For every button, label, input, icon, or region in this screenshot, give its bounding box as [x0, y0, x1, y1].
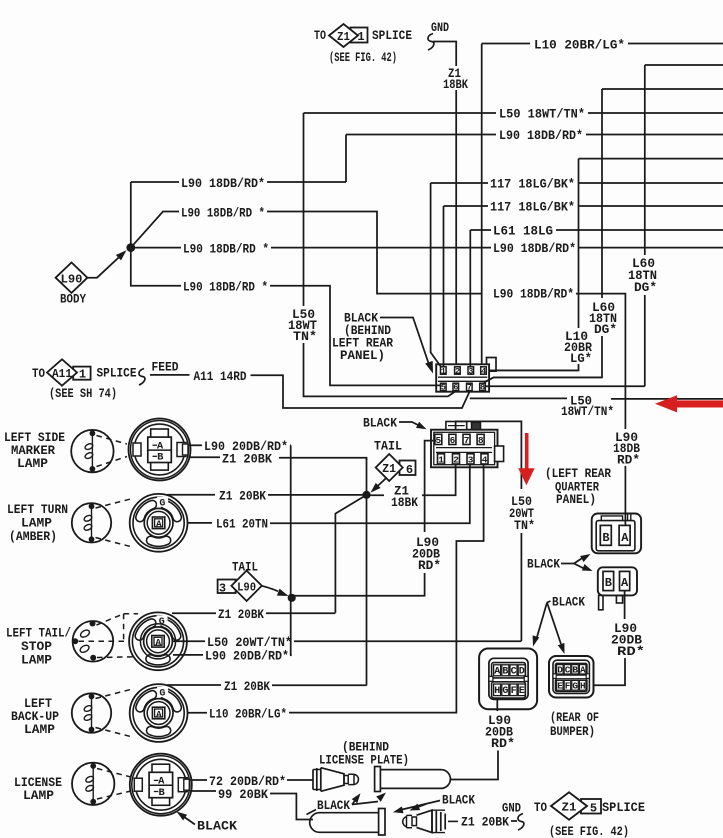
svg-text:LAMP: LAMP	[23, 789, 54, 803]
connector C1 pin 4	[481, 366, 487, 376]
connector C1 8-way shell	[436, 358, 496, 392]
connector C2 pin 1	[438, 454, 445, 466]
svg-text:L10 20BR/LG*: L10 20BR/LG*	[534, 38, 625, 53]
svg-text:7: 7	[464, 435, 470, 446]
svg-text:TO: TO	[32, 366, 45, 381]
wire Z1 20BK from lamp2 to junction J1	[167, 489, 367, 504]
svg-text:E: E	[519, 686, 525, 697]
wire 117 18LG/BK* first (right edge y183 to C1 pin 1)	[431, 177, 723, 367]
connector B/A lower	[598, 567, 637, 610]
svg-text:G: G	[572, 681, 578, 692]
node body junction J0 with dot	[126, 243, 135, 252]
svg-text:18BK: 18BK	[391, 496, 418, 510]
svg-text:SPLICE: SPLICE	[97, 366, 137, 381]
label BLACK with arrows to upper bullet pair	[307, 793, 387, 815]
wire L90 20DB RD* from B/A lower pin A to EFGH connector pin H	[594, 591, 646, 686]
wire L90 20DB RD* from HGFE to upper bullet connector	[451, 699, 516, 780]
svg-text:5: 5	[441, 383, 446, 393]
connector DCBA pin A	[579, 664, 586, 675]
svg-text:L90 18DB/RD*: L90 18DB/RD*	[499, 128, 583, 143]
node junction J1 (Z1 ground bus) with dot	[335, 458, 370, 686]
wire L90 18DB/RD* through line y248 from body junction to right edge	[131, 241, 723, 257]
svg-text:(SEE FIG. 42): (SEE FIG. 42)	[329, 51, 397, 65]
svg-text:LAMP: LAMP	[21, 517, 52, 531]
connector C2 pin 6	[449, 434, 456, 446]
splice symbol Z1-5 (TO Z1 5 SPLICE)	[534, 792, 645, 838]
label BLACK with leader arrow to connector C2	[363, 416, 427, 431]
wire A11 14RD feed to C1 pin 7	[150, 369, 470, 408]
connector C2 pin 4	[481, 454, 488, 466]
svg-text:Z1 20BK: Z1 20BK	[218, 607, 264, 622]
ground symbol GND (top)	[428, 21, 449, 50]
svg-text:3: 3	[219, 582, 226, 596]
svg-text:SPLICE: SPLICE	[602, 800, 645, 815]
svg-text:2: 2	[453, 454, 459, 465]
connector HGFE pin H	[494, 684, 501, 697]
connector lamp2 socket	[130, 494, 188, 552]
svg-text:Z1: Z1	[337, 30, 350, 44]
connector C1 pin 2	[455, 366, 461, 376]
svg-text:L10 20BR/LG*: L10 20BR/LG*	[209, 707, 287, 722]
lamp bulb license	[72, 763, 114, 805]
svg-text:Z1: Z1	[562, 801, 577, 815]
label BLACK (BEHIND LEFT REAR PANEL) with leader arrow to connector C1	[332, 311, 433, 374]
svg-text:DG*: DG*	[634, 280, 657, 295]
svg-text:FEED: FEED	[152, 361, 179, 375]
svg-text:4: 4	[481, 366, 486, 376]
label (REAR OF BUMPER)	[550, 710, 599, 739]
ground/feed squiggle and FEED label	[139, 361, 179, 386]
svg-text:L90 18DB/RD *: L90 18DB/RD *	[183, 242, 269, 257]
connector DCBA pin B	[572, 664, 579, 675]
svg-text:117 18LG/BK*: 117 18LG/BK*	[490, 200, 575, 215]
label LEFT SIDE MARKER LAMP	[4, 431, 65, 471]
wire from BODY diamond to junction J0 with arrowhead	[87, 250, 126, 278]
svg-text:L61 20TN: L61 20TN	[216, 517, 268, 532]
svg-text:SPLICE: SPLICE	[372, 28, 412, 43]
svg-text:LICENSE PLATE): LICENSE PLATE)	[319, 753, 409, 768]
wire L90 20DB/RD* from lamp3 to junction J2	[173, 649, 292, 664]
svg-text:B: B	[502, 667, 508, 678]
red arrow pointing down at wire L50 20WT TN*	[518, 433, 534, 485]
connector EFGH pin H	[579, 680, 586, 691]
svg-text:8: 8	[478, 435, 484, 446]
svg-text:1: 1	[357, 30, 364, 44]
red arrow pointing left at wire L50 18WT/TN*	[655, 395, 723, 412]
svg-text:H: H	[580, 681, 586, 692]
svg-text:A: A	[155, 637, 161, 648]
svg-text:L50 18WT/TN*: L50 18WT/TN*	[499, 107, 585, 122]
connector ABCD pin A	[494, 665, 501, 678]
connector DCBA pin D	[557, 664, 564, 675]
svg-text:(SEE SH 74): (SEE SH 74)	[49, 387, 117, 401]
wire 72 20DB/RD* from lamp5 pin A to license bullet connector	[190, 774, 313, 789]
svg-text:BLACK: BLACK	[317, 798, 350, 813]
svg-text:BUMPER): BUMPER)	[550, 724, 595, 739]
svg-text:LAMP: LAMP	[17, 457, 48, 471]
svg-text:L90: L90	[61, 273, 83, 287]
connector C1 pin 8	[480, 383, 486, 393]
wire Z1 18BK from GND down to connector C1 pin 2	[433, 42, 468, 365]
connector EFGH pin F	[564, 680, 571, 691]
svg-text:Z1 20BK: Z1 20BK	[222, 452, 272, 467]
wire L10 20BR/LG* (top, to connector C1 pin 4)	[482, 38, 723, 365]
svg-text:99 20BK: 99 20BK	[218, 787, 268, 802]
svg-text:3: 3	[468, 366, 473, 376]
connector lamp3 socket	[129, 612, 187, 670]
wire L60 18TN DG* (right edge y65 down to C1 pin 8)	[483, 65, 723, 386]
svg-text:LAMP: LAMP	[21, 654, 52, 668]
wire L60 second from C1 pin 8 diagonal	[484, 377, 602, 382]
label BLACK with leader to lamp5 socket	[177, 812, 238, 834]
svg-text:18BK: 18BK	[443, 78, 468, 92]
connector ABCD/HGFE (8-way square)	[479, 649, 537, 710]
svg-text:BLACK: BLACK	[442, 793, 475, 808]
svg-text:PANEL): PANEL)	[340, 348, 385, 363]
svg-text:TO: TO	[534, 800, 547, 815]
svg-text:LEFT TAIL/: LEFT TAIL/	[6, 627, 71, 641]
svg-text:B: B	[602, 531, 609, 545]
label LICENSE LAMP	[14, 776, 62, 803]
svg-text:1: 1	[79, 368, 86, 382]
wire L61 20TN from lamp2 to C2 pin 3	[188, 517, 269, 532]
svg-text:LEFT: LEFT	[24, 697, 52, 711]
svg-text:A: A	[156, 519, 162, 530]
wire L90 branch 2 y212 routed to B/A connector via x377 and x625	[131, 206, 626, 430]
svg-text:7: 7	[467, 383, 472, 393]
svg-text:3: 3	[468, 454, 474, 465]
wire dashed leaders lamp4	[96, 689, 133, 737]
connector C1 pin 5	[441, 383, 447, 393]
connector bullet upper pair behind license plate	[313, 767, 450, 792]
svg-text:4: 4	[482, 454, 488, 465]
svg-text:G: G	[502, 686, 508, 697]
wire Z1 20BK from lamp4 to junction J1 bus	[167, 679, 367, 694]
svg-text:5: 5	[436, 435, 442, 446]
svg-text:BLACK: BLACK	[197, 819, 237, 834]
wire L90 branch 4 y285 routed to C1 pin 5	[131, 248, 440, 386]
svg-text:A11: A11	[52, 368, 72, 381]
svg-text:C: C	[565, 664, 571, 675]
connector C1 pin 7	[467, 383, 473, 393]
svg-text:GND: GND	[431, 21, 449, 35]
connector DCBA pin C	[564, 664, 571, 675]
lamp bulb left back-up	[72, 693, 111, 732]
ground symbol GND (bottom right)	[502, 802, 524, 831]
wire L50 20WT/TN* from lamp3 to C2 pin 6 riser	[172, 635, 521, 650]
splice diamond Z1 with box 1	[329, 24, 412, 65]
connector B/A upper (left rear quarter panel)	[592, 514, 641, 554]
connector lamp1 socket A/B	[129, 419, 191, 481]
svg-text:L90 18DB/RD*: L90 18DB/RD*	[181, 176, 265, 191]
svg-text:BLACK: BLACK	[552, 595, 585, 610]
wire L90 20DB/RD* from lamp1 pin A to junction J2	[189, 439, 291, 454]
svg-text:RD*: RD*	[491, 736, 515, 751]
connector ABCD pin C	[510, 665, 517, 678]
connector lamp5 socket A/B	[130, 754, 192, 816]
svg-text:A: A	[157, 440, 164, 452]
wire Z1 18BK from C2 pin 2 to junction J1 (inline label)	[367, 464, 456, 510]
svg-text:TO: TO	[314, 28, 326, 43]
lamp bulb left tail/stop (dual filament)	[72, 621, 113, 662]
connector ABCD pin B	[502, 665, 509, 678]
svg-text:B: B	[605, 576, 612, 590]
splice symbol L90 BODY diamond	[56, 263, 88, 307]
svg-text:Z1 20BK: Z1 20BK	[461, 815, 509, 830]
svg-text:Z1 20BK: Z1 20BK	[224, 679, 270, 694]
svg-text:A: A	[621, 576, 629, 590]
label LEFT TAIL/ STOP LAMP	[6, 627, 71, 668]
svg-text:G: G	[159, 498, 165, 509]
svg-text:Z1 20BK: Z1 20BK	[219, 489, 266, 504]
wire L60 18TN DG* second (right edge y89 down to C1 pin 8 area)	[485, 89, 723, 382]
svg-text:Z1: Z1	[382, 463, 396, 476]
svg-text:BODY: BODY	[60, 293, 86, 307]
connector C1 pin 1	[441, 366, 447, 376]
svg-text:F: F	[511, 686, 517, 697]
svg-text:MARKER: MARKER	[11, 444, 55, 458]
wire L61 18LG (right edge y230 to C1 pin 3)	[470, 224, 723, 367]
splice symbol Z1-1 (TO Z1 1 SPLICE)	[314, 28, 326, 43]
connector bullet lower pair	[310, 809, 458, 836]
svg-text:8: 8	[480, 383, 485, 393]
svg-text:PANEL): PANEL)	[556, 492, 596, 507]
connector C1 pin 3	[468, 366, 474, 376]
svg-text:(AMBER): (AMBER)	[9, 530, 57, 544]
wire dashed leaders lamp5	[97, 769, 131, 800]
connector C2 8-way shell	[431, 422, 504, 468]
wire L50 18WT/TN* (right edge, down left side x303 to C1 pin 6)	[288, 107, 723, 397]
svg-text:LEFT SIDE: LEFT SIDE	[4, 431, 65, 445]
svg-text:TAIL: TAIL	[374, 439, 402, 454]
svg-text:D: D	[557, 664, 563, 675]
svg-text:5: 5	[590, 802, 597, 816]
svg-text:LICENSE: LICENSE	[14, 776, 62, 790]
svg-text:TN*: TN*	[514, 518, 535, 533]
svg-text:BLACK: BLACK	[527, 557, 560, 572]
wire Z1 20BK from lamp3 to junction J1 branch	[172, 607, 335, 622]
lamp bulb left side marker	[71, 430, 113, 472]
svg-text:6: 6	[453, 383, 458, 393]
svg-text:A: A	[494, 667, 500, 678]
svg-text:STOP: STOP	[21, 640, 52, 654]
connector HGFE pin F	[510, 684, 517, 697]
wire L90 branch 1 y182	[131, 176, 346, 248]
svg-text:LG*: LG*	[570, 351, 592, 366]
svg-text:18WT/TN*: 18WT/TN*	[561, 404, 614, 419]
connector EFGH pin G	[572, 680, 579, 691]
svg-text:1: 1	[441, 366, 446, 376]
label TAIL splice Z1-6 diamond with arrow to junction J1	[371, 439, 416, 493]
svg-text:(REAR OF: (REAR OF	[550, 710, 599, 725]
label BLACK with arrows to both B/A connectors	[527, 554, 593, 572]
connector HGFE pin E	[518, 684, 525, 697]
svg-text:LAMP: LAMP	[24, 723, 55, 737]
svg-text:L90 18DB/RD *: L90 18DB/RD *	[183, 280, 268, 295]
svg-text:E: E	[557, 681, 563, 692]
connector C1 pin 6	[453, 383, 459, 393]
connector EFGH pin E	[557, 680, 564, 691]
splice symbol A11-1 (TO A11 1 SPLICE)	[32, 359, 137, 401]
connector C2 pin 2	[453, 454, 460, 466]
label LEFT BACK-UP LAMP	[11, 697, 59, 737]
svg-text:A: A	[156, 709, 162, 720]
svg-text:B: B	[158, 787, 165, 799]
connector lamp4 socket	[130, 684, 188, 742]
svg-text:2: 2	[455, 366, 460, 376]
wire dashed leaders lamp1 bulb to socket	[97, 436, 128, 467]
svg-text:1: 1	[438, 454, 444, 465]
svg-text:6: 6	[406, 463, 413, 477]
label BLACK with arrows to ABCD and DCBA connectors	[533, 595, 586, 655]
svg-text:RD*: RD*	[617, 644, 645, 659]
svg-text:117 18LG/BK*: 117 18LG/BK*	[490, 177, 575, 192]
connector C2 pin 5	[435, 434, 442, 446]
connector C2 pin 8	[477, 434, 484, 446]
label LEFT TURN LAMP (AMBER)	[7, 503, 68, 544]
svg-text:TN*: TN*	[293, 329, 317, 344]
svg-text:GND: GND	[502, 802, 521, 816]
label (LEFT REAR QUARTER PANEL)	[545, 466, 611, 507]
svg-text:A: A	[158, 776, 165, 788]
connector HGFE pin G	[502, 684, 509, 697]
wire L50 18WT/TN* lower with red arrow (from C1 pin 7 area to right)	[470, 394, 723, 420]
svg-text:L90 18DB/RD *: L90 18DB/RD *	[181, 206, 265, 221]
wire dashed leaders lamp2	[96, 499, 133, 548]
svg-text:G: G	[159, 689, 165, 700]
connector C2 pin 3	[467, 454, 474, 466]
svg-text:D: D	[519, 667, 525, 678]
svg-text:H: H	[494, 686, 500, 697]
wire L10 20BR LG* second (right edge y158 down to C1 flange)	[489, 159, 723, 371]
wire L10 20BR LG* stub from C1 flange	[489, 369, 579, 371]
svg-text:G: G	[159, 617, 165, 628]
wire L10 20BR/LG* from C2 pin 4 down to lamp4	[289, 464, 484, 713]
svg-text:A: A	[580, 664, 586, 675]
wire Z1 20BK to bottom ground	[461, 815, 517, 830]
svg-text:L90 18DB/RD*: L90 18DB/RD*	[493, 241, 576, 256]
connector DCBA/EFGH (rear of bumper)	[549, 656, 594, 698]
svg-text:A: A	[621, 531, 629, 545]
wire label L90 18DB RD* above B/A connector	[613, 430, 640, 525]
wire L50 20WT TN* from C2 pin 6 down to lamp3 (with inline label)	[456, 421, 535, 641]
wire dashed leaders lamp3	[79, 614, 139, 658]
svg-text:A11 14RD: A11 14RD	[194, 369, 247, 384]
svg-text:F: F	[565, 681, 571, 692]
label BLACK with arrows to lower bullet pair	[393, 793, 475, 814]
connector C2 pin 7	[463, 434, 470, 446]
svg-text:DG*: DG*	[594, 322, 617, 337]
svg-text:LEFT TURN: LEFT TURN	[7, 503, 68, 517]
svg-text:B: B	[157, 452, 164, 464]
lamp bulb left turn	[72, 503, 111, 542]
svg-text:6: 6	[450, 435, 456, 446]
svg-text:RD*: RD*	[617, 453, 640, 468]
svg-text:(SEE FIG. 42): (SEE FIG. 42)	[549, 825, 629, 838]
wire Z1 20BK from lamp1 pin B to junction J1	[189, 452, 367, 467]
svg-text:C: C	[511, 667, 517, 678]
wire 117 18LG/BK* second (right edge y206 to C1 pin 1)	[444, 200, 723, 367]
wire L90 20DB RD* from C2 pin 5 down to junction J2	[292, 441, 441, 596]
svg-text:L90: L90	[237, 582, 256, 595]
svg-text:B: B	[572, 664, 578, 675]
connector ABCD pin D	[518, 665, 525, 678]
svg-text:L61 18LG: L61 18LG	[493, 224, 553, 239]
wire L61 20TN from C2 pin 3 down-left to lamp2	[270, 464, 470, 523]
svg-text:BACK-UP: BACK-UP	[11, 710, 59, 724]
svg-text:RD*: RD*	[418, 558, 441, 573]
wire L90 18DB/RD* (right label y135 joining left branch y182)	[346, 128, 723, 182]
svg-text:L90 18DB/RD*: L90 18DB/RD*	[493, 287, 574, 302]
label TAIL splice 3-L90 diamond with arrow to junction J2	[218, 561, 289, 602]
svg-text:L90 20DB/RD*: L90 20DB/RD*	[205, 649, 289, 664]
wire L10 20BR/LG* from lamp4 to C2 pin 4 riser	[188, 707, 288, 722]
label (BEHIND LICENSE PLATE)	[319, 740, 409, 768]
node junction J2 (L90 tail bus) with dot	[288, 447, 296, 655]
svg-text:BLACK: BLACK	[363, 416, 397, 431]
wire 99 20BK from lamp5 pin B to lower bullet connector	[190, 787, 313, 820]
